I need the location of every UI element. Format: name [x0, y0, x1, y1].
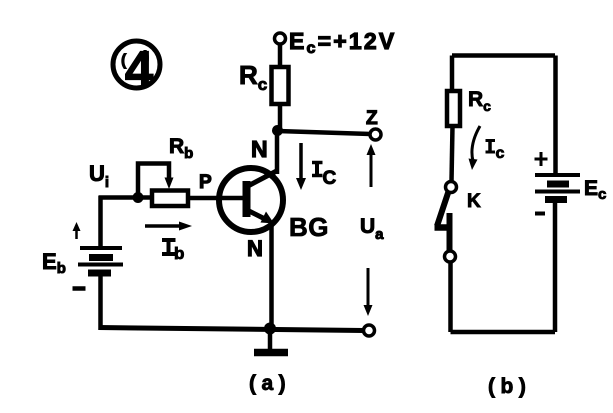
svg-text:4: 4 — [125, 41, 154, 98]
svg-text:): ) — [144, 49, 149, 66]
svg-text:(b): (b) — [488, 375, 531, 398]
svg-text:(a): (a) — [249, 372, 291, 395]
svg-text:Z: Z — [366, 108, 378, 129]
svg-text:Ui: Ui — [89, 161, 109, 191]
svg-text:Rb: Rb — [169, 135, 193, 162]
svg-text:P: P — [199, 172, 212, 193]
svg-text:Rc: Rc — [239, 60, 267, 94]
svg-text:N: N — [251, 136, 268, 162]
svg-text:Ec: Ec — [584, 177, 606, 203]
svg-text:(: ( — [121, 52, 127, 69]
svg-text:BG: BG — [289, 212, 329, 242]
svg-text:Ua: Ua — [360, 215, 384, 243]
svg-text:b: b — [174, 244, 184, 263]
svg-text:Eb: Eb — [42, 249, 66, 277]
svg-text:Ec=+12V: Ec=+12V — [289, 28, 396, 57]
svg-text:N: N — [247, 236, 263, 261]
svg-text:Rc: Rc — [468, 88, 491, 114]
svg-text:K: K — [467, 191, 481, 212]
svg-text:c: c — [496, 145, 505, 162]
svg-text:C: C — [323, 168, 337, 189]
